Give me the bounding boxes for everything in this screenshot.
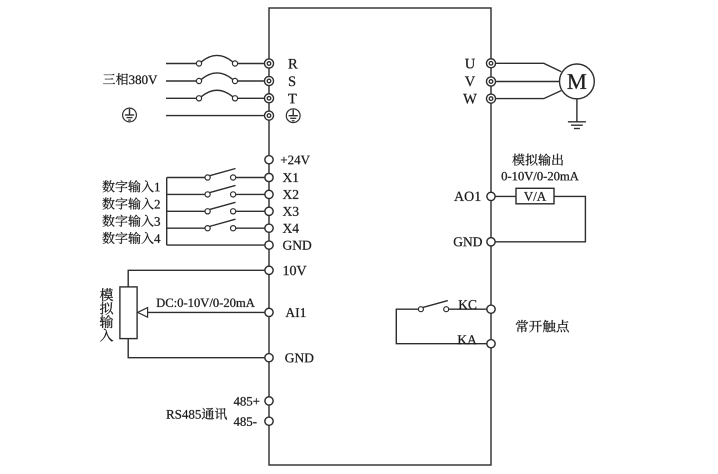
label T <box>288 94 296 104</box>
label AO1 <box>454 192 480 201</box>
label 数字输入1 <box>103 180 160 192</box>
label GND output <box>454 237 482 246</box>
label X3 <box>283 207 299 216</box>
label 数字输入2 <box>103 198 160 210</box>
wire potentiometer to GND <box>128 339 265 358</box>
label GND digital <box>283 241 311 250</box>
terminal X3 <box>265 207 273 215</box>
terminal R <box>264 59 273 68</box>
ground PE symbol inside box <box>286 109 300 123</box>
terminal AI1 <box>265 308 273 316</box>
switch X2 <box>167 185 265 197</box>
label RS485通讯 <box>166 408 227 420</box>
wire KC to switch <box>448 308 486 310</box>
label S <box>289 76 295 86</box>
switch X4 <box>167 219 265 231</box>
terminal V <box>486 77 495 86</box>
inverter box <box>269 8 491 465</box>
label KA <box>458 335 477 344</box>
terminal +24V <box>265 156 273 164</box>
terminal KC <box>487 305 495 313</box>
label X1 <box>283 173 298 182</box>
terminal W <box>486 94 495 103</box>
terminal U <box>486 59 495 68</box>
label 10V <box>284 266 307 276</box>
label DC:0-10V/0-20mA <box>157 299 255 308</box>
label W <box>463 94 477 104</box>
terminal GND digital <box>265 241 273 249</box>
terminal X2 <box>265 190 273 198</box>
label X4 <box>283 224 299 233</box>
wire R phase with breaker <box>166 55 265 66</box>
terminal AO1 <box>487 192 495 200</box>
label 0-10V/0-20mA <box>502 172 579 181</box>
wire 10V to potentiometer <box>128 270 265 287</box>
wire V/A to GND <box>495 196 585 241</box>
wire GND row <box>167 244 265 246</box>
terminal 485+ <box>265 397 273 405</box>
motor M1 <box>560 64 595 99</box>
label 数字输入4 <box>103 232 161 244</box>
label GND analog <box>285 353 313 362</box>
ground PE symbol left <box>123 108 137 122</box>
label 模拟输出 <box>512 154 563 166</box>
terminal GND analog <box>265 354 273 362</box>
label 数字输入3 <box>103 215 161 227</box>
label V <box>465 77 475 87</box>
wire V to motor <box>495 81 559 83</box>
terminal S <box>264 76 273 85</box>
label 485+ <box>234 397 259 406</box>
wiper arrow <box>138 308 148 318</box>
terminal KA <box>487 340 495 348</box>
label 模拟输入 vertical <box>100 288 114 341</box>
label +24V <box>281 156 310 165</box>
meter V/A <box>516 188 554 204</box>
label X2 <box>283 190 299 199</box>
label U <box>465 59 475 69</box>
ground motor <box>568 122 586 129</box>
label 常开触点 <box>516 320 569 333</box>
terminal X4 <box>265 224 273 232</box>
terminal PE <box>264 111 273 120</box>
label AI1 <box>286 308 306 317</box>
label 485- <box>234 417 257 426</box>
label 三相380V <box>103 73 157 85</box>
terminal GND output <box>487 238 495 246</box>
switch X1 <box>167 169 265 181</box>
terminal 10V <box>265 266 273 274</box>
wire motor to ground <box>576 99 578 122</box>
wire W to motor <box>495 91 561 99</box>
terminal T <box>264 94 273 103</box>
wire AO1 to V/A meter <box>495 195 516 197</box>
wire wiper to AI1 <box>147 311 264 313</box>
wire digital common bus <box>166 178 168 246</box>
switch X3 <box>167 202 265 214</box>
wire switch to KA <box>396 309 486 344</box>
wire T phase with breaker <box>166 90 265 101</box>
wire S phase with breaker <box>166 73 265 84</box>
wire U to motor <box>495 63 561 71</box>
terminal 485- <box>265 417 273 425</box>
label KC <box>459 300 477 309</box>
label R <box>288 59 297 69</box>
terminal X1 <box>265 173 273 181</box>
wire PE line <box>166 115 265 117</box>
potentiometer body <box>120 287 137 339</box>
relay switch K1 <box>418 301 448 312</box>
